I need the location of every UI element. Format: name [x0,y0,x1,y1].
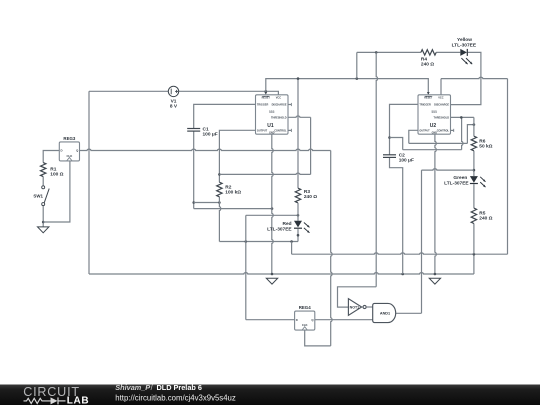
wire U1 OUTPUT down to R2 [219,130,255,182]
wire green LED to R5 [473,184,475,208]
wire yellow LED to U2 DISCHARGE [451,52,481,104]
CircuitLab logo zigzag and diode [24,398,51,403]
junction dot mid rail branch [290,240,293,243]
wire R3 to red LED [297,203,299,221]
svg-text:D: D [61,149,63,153]
svg-text:Shivam_P: Shivam_P [115,383,150,392]
wire REG4 Q to AND1 [315,319,373,321]
svg-text:Red: Red [283,221,292,227]
svg-text:100 Ω: 100 Ω [50,171,63,177]
switch SW1 [42,186,45,189]
wire mid rail y=254.2 [291,242,293,255]
svg-text:OUTPUT: OUTPUT [257,130,268,133]
wire U2 TRIGGER drop to C2 [390,104,419,154]
resistor R2 [217,182,222,197]
timer U1 [256,95,289,134]
svg-text:http://circuitlab.com/cj4v3x9v: http://circuitlab.com/cj4v3x9v5s4uz [115,393,236,402]
flip-flop REG4 [295,311,315,330]
wire SW1 to ground node [42,206,44,227]
junction dot C1/R2 link left [192,201,195,204]
wire V1- left segment [89,90,168,92]
junction dot rail/R4 branch [356,77,359,80]
resistor R5 [471,208,476,223]
wire NOT1 feed vertical x=376.2 down to NOT1 input [376,52,377,286]
svg-text:THRESHOLD: THRESHOLD [271,117,287,120]
arrowhead into U2 RESET [427,92,430,95]
ground symbol below U2 GND [429,278,440,284]
junction dot V1/RESET node [265,90,268,93]
junction dot R2 bottom [218,201,221,204]
footer bar [0,385,540,405]
junction dot mid rail at R5 [473,253,476,256]
svg-text:555: 555 [432,110,438,114]
svg-text:REG4: REG4 [299,305,312,310]
svg-text:SW1: SW1 [33,194,43,199]
svg-text:RESET: RESET [262,97,271,100]
resistor R4 [421,50,436,55]
junction dot R2 top / threshold link [218,173,221,176]
junction dot top rail / NOT1 feed [375,51,378,54]
svg-text:LTL-307EE: LTL-307EE [267,226,292,232]
flip-flop REG3 [59,142,79,161]
wire R4 branch riser [356,52,358,78]
wire R1 to SW1 [42,177,44,186]
junction dot SW1 ground node [42,221,45,224]
junction dot TRIGGER/C2 node [388,136,391,139]
junction dot R3 feed at rail [297,77,300,80]
wire U2 CONTROL stub [451,129,454,131]
junction dot threshold link [460,116,463,119]
svg-text:240 Ω: 240 Ω [479,216,492,222]
svg-text:CLK: CLK [302,323,308,327]
wire REG4 D feed x=245.8 [245,215,247,319]
svg-text:240 Ω: 240 Ω [304,194,317,200]
svg-text:LTL-307EE: LTL-307EE [452,42,477,48]
wire R2 bottom to red LED bottom node [219,197,220,242]
junction dot C2 drop at bottom rail [401,273,404,276]
resistor R1 [41,163,46,177]
wire threshold link y=174.4 up to U1 THRESHOLD [219,173,310,174]
wire bottom rail y=274 [89,273,474,274]
ground symbol below SW1 [38,227,49,233]
wire C2 bottom to bottom rail [390,157,403,274]
wire SW1 node to REG3 CLK [43,161,70,222]
junction dot R6 top node [473,123,476,126]
wire red LED anode link y=215.3 [246,214,298,216]
wire green LED anode link y=170.1 [422,169,474,170]
wire U1 CONTROL stub [288,129,291,131]
svg-text:100 kΩ: 100 kΩ [225,190,241,196]
wire R6 to green LED [473,151,475,176]
wire top rail y=52.4 left of R4 [357,51,421,53]
resistor R3 [295,188,300,203]
junction dot red LED anode [297,214,300,217]
svg-text:555: 555 [269,110,275,114]
wire U1 DISCHARGE stub [288,104,291,106]
junction dot U2 GND at bottom rail [434,273,437,276]
wire C1 bottom to ground bus [193,131,195,209]
svg-text:OUTPUT: OUTPUT [419,130,430,133]
svg-text:240 Ω: 240 Ω [421,61,434,67]
wire U2 OUTPUT loop to R6 top node [409,130,418,143]
wire REG3 D to R1 [43,151,59,163]
svg-text:Green: Green [453,175,467,181]
wire link C1-R2 y=202.5 [194,202,220,204]
wire AND1 output riser [396,312,422,314]
svg-text:LAB: LAB [67,396,89,405]
LED green (down, LTL-307EE) [470,176,478,183]
wire left vertical x=89 [88,91,90,274]
wire U2 THRESHOLD to R6 [451,116,474,118]
junction dot REG4 feed [245,240,248,243]
svg-text:Yellow: Yellow [457,37,472,43]
svg-text:AND1: AND1 [380,312,390,316]
svg-text:CLK: CLK [67,154,73,158]
svg-text:U2: U2 [430,123,437,129]
svg-text:DLD Prelab 6: DLD Prelab 6 [157,383,202,392]
wire top rail R4 to yellow LED [436,51,460,53]
junction dot U1 GND at bottom rail [271,273,274,276]
svg-text:U1: U1 [267,123,274,129]
timer U2 [418,95,451,134]
voltage source V1 [168,86,178,96]
ground symbol below U1 GND [266,278,277,284]
svg-text:CONTROL: CONTROL [437,130,450,133]
wire bottom rail rise to mid rail [473,254,475,274]
svg-text:D: D [296,318,298,322]
svg-text:100 μF: 100 μF [203,131,218,137]
wire trigger-threshold link [390,138,403,150]
junction dot ground bus at U1 GND line [271,207,274,210]
capacitor C1 [187,128,200,130]
LED yellow (D, LTL-307EE) [460,49,467,56]
svg-text:VCC: VCC [276,97,281,100]
AND gate AND1 [373,303,396,322]
LED red (down, LTL-307EE) [294,221,302,228]
wire U2 GND vertical [435,134,436,274]
wire V1+ to U1 VCC [179,91,279,95]
svg-text:NOT1: NOT1 [350,305,360,309]
svg-text:VCC: VCC [438,97,443,100]
svg-text:DISCHARGE: DISCHARGE [272,104,287,107]
svg-text:RESET: RESET [424,97,433,100]
wire U1 TRIGGER to C1 [194,104,256,128]
svg-text:8 V: 8 V [170,103,178,109]
inverter NOT1 [348,299,361,316]
wire REG3 Q line to REG4 CLK [80,149,331,150]
svg-text:THRESHOLD: THRESHOLD [434,117,450,120]
wire U2 VCC riser and rail to right edge loop [440,79,442,95]
svg-text:DISCHARGE: DISCHARGE [434,104,449,107]
capacitor C2 [383,154,396,156]
resistor R6 [471,136,476,151]
svg-text:REG3: REG3 [63,136,76,141]
wire U1 RESET riser and top distribution rail y=78.6 [266,79,429,95]
junction dot green LED top [473,169,476,172]
arrowhead into U1 RESET [265,91,267,93]
wire R3 feed from rail x=298 [297,79,299,189]
svg-text:TRIGGER: TRIGGER [419,104,431,107]
svg-text:CONTROL: CONTROL [274,130,287,133]
svg-text:50 kΩ: 50 kΩ [479,143,492,149]
wire R5 to mid rail [473,224,475,255]
junction dot red LED bottom link [297,234,300,237]
svg-text:100 μF: 100 μF [399,158,414,164]
wire U1 GND vertical [272,134,273,274]
svg-text:LTL-307EE: LTL-307EE [444,181,469,187]
svg-text:TRIGGER: TRIGGER [257,104,269,107]
wire NOT1 to AND1 [367,306,373,308]
